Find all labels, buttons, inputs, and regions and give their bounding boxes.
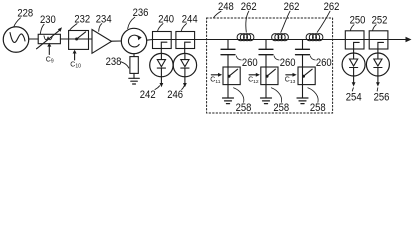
control arrow C10: [70, 50, 81, 70]
svg-text:252: 252: [372, 15, 388, 27]
label 252: [372, 15, 388, 31]
svg-text:228: 228: [17, 8, 33, 20]
wire element to ground (branch 3): [302, 85, 304, 98]
inductor L3 262: [306, 34, 323, 41]
detector diode 242: [150, 53, 173, 76]
svg-text:242: 242: [140, 89, 156, 101]
ground 258 (branch 3): [297, 98, 308, 104]
svg-text:256: 256: [374, 91, 390, 103]
detector diode 246: [173, 53, 196, 76]
control arrow C11: [210, 73, 222, 85]
inductor L1 262: [237, 34, 254, 41]
wire resistor to ground: [133, 73, 135, 78]
coupler 240: [153, 32, 172, 49]
wire coupler 240 to detector 242: [160, 49, 162, 54]
svg-text:238: 238: [106, 56, 122, 68]
ground 258 (branch 1): [223, 98, 234, 104]
coupler 244: [176, 32, 195, 49]
inductor L2 262: [272, 34, 289, 41]
ground 258 (branch 2): [261, 98, 272, 104]
label 236: [128, 7, 149, 29]
label 262 (L1): [241, 1, 257, 32]
svg-text:262: 262: [284, 1, 300, 13]
label 260 (branch 2): [274, 56, 296, 69]
svg-text:260: 260: [280, 57, 296, 69]
svg-text:C11: C11: [210, 77, 220, 85]
svg-text:258: 258: [273, 102, 289, 114]
svg-text:260: 260: [242, 57, 258, 69]
output arrowhead: [406, 37, 412, 42]
output arrow 254: [352, 76, 356, 87]
variable phase shifter 232: [69, 31, 89, 50]
svg-text:C12: C12: [248, 77, 259, 85]
capacitor 260 (branch 1): [221, 49, 235, 54]
output arrow 246: [183, 77, 187, 88]
tunable element Ct1 (branch 1): [223, 67, 240, 85]
output arrow 242: [160, 77, 164, 88]
label 254: [346, 88, 362, 104]
svg-text:230: 230: [40, 14, 56, 26]
wire cap to tunable element (branch 2): [265, 55, 267, 67]
svg-text:240: 240: [158, 13, 174, 25]
label 250: [350, 15, 366, 31]
wire branch 3 stub: [302, 40, 304, 49]
detector diode 254: [342, 53, 365, 76]
wire element to ground (branch 2): [265, 85, 267, 98]
svg-text:258: 258: [236, 102, 252, 114]
svg-text:C9: C9: [46, 56, 54, 64]
wire coupler 244 to detector 246: [184, 49, 186, 54]
coupler 252: [369, 31, 388, 49]
label 238: [106, 56, 129, 68]
wire main line source to filter input: [29, 39, 122, 41]
wire branch 1 stub: [227, 40, 229, 49]
output arrow 256: [376, 76, 380, 87]
load resistor 238: [130, 57, 138, 74]
label 258 (branch 2): [271, 88, 289, 114]
svg-text:C13: C13: [285, 77, 296, 85]
svg-text:246: 246: [167, 89, 183, 101]
label 230: [40, 14, 56, 34]
svg-text:244: 244: [182, 13, 198, 25]
label 234: [96, 13, 112, 31]
svg-text:234: 234: [96, 13, 112, 25]
source 228 (AC generator circle): [3, 27, 29, 53]
label 228: [14, 8, 33, 27]
control arrow C9: [46, 43, 54, 65]
label 262 (L3): [317, 1, 339, 32]
capacitor 260 (branch 3): [296, 49, 310, 54]
circulator 236: [121, 28, 146, 53]
tunable element Ct2 (branch 2): [261, 67, 278, 85]
wire element to ground (branch 1): [227, 85, 229, 98]
control arrow C12: [248, 73, 260, 85]
detector diode 256: [366, 53, 389, 76]
label 262 (L2): [281, 1, 300, 32]
svg-text:254: 254: [346, 91, 362, 103]
ground (load): [129, 78, 140, 84]
label 258 (branch 1): [234, 88, 252, 114]
label 260 (branch 3): [310, 56, 331, 69]
label 244: [181, 13, 197, 31]
svg-text:262: 262: [324, 1, 340, 13]
label 248: [214, 1, 234, 18]
wire main transmission line through couplers to output arrow: [147, 39, 407, 42]
svg-text:258: 258: [310, 102, 326, 114]
coupler 250: [345, 31, 364, 49]
svg-text:260: 260: [316, 57, 332, 69]
capacitor 260 (branch 2): [259, 49, 273, 54]
wire coupler 250 to detector 254: [353, 49, 355, 53]
filter network 248 (dashed box): [207, 18, 333, 113]
svg-text:250: 250: [350, 15, 366, 27]
label 242: [140, 86, 160, 101]
label 258 (branch 3): [308, 88, 326, 114]
tunable element Ct3 (branch 3): [298, 67, 315, 85]
label 240: [158, 13, 175, 31]
wire cap to tunable element (branch 1): [227, 55, 229, 67]
wire coupler 252 to detector 256: [377, 49, 379, 53]
variable attenuator 230: [37, 27, 63, 49]
amplifier 234: [92, 30, 112, 54]
wire branch 2 stub: [265, 40, 267, 49]
label 256: [374, 88, 390, 104]
label 246: [167, 86, 184, 101]
svg-text:C10: C10: [70, 61, 81, 69]
label 260 (branch 1): [236, 56, 257, 69]
label 232: [70, 13, 91, 30]
wire cap to tunable element (branch 3): [302, 55, 304, 67]
wire circulator to load: [133, 54, 135, 57]
control arrow C13: [285, 73, 297, 85]
